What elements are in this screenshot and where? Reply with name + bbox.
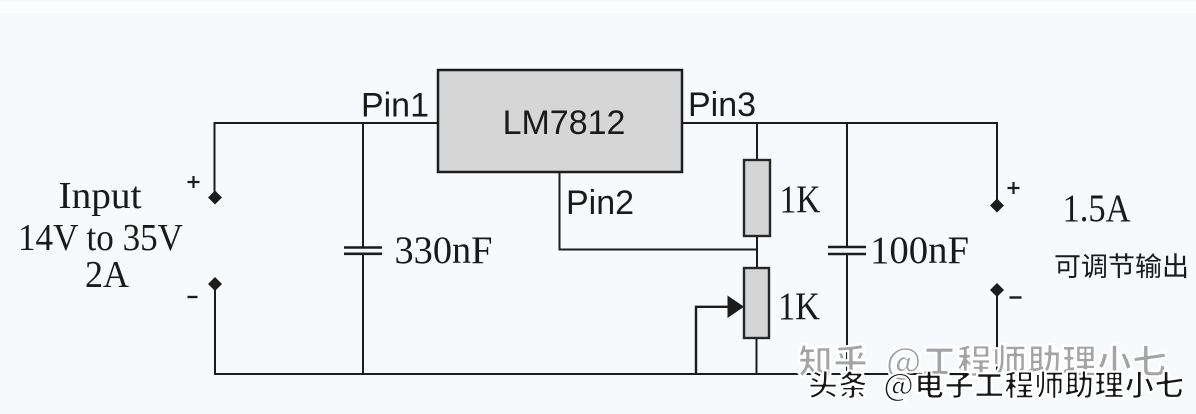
value label 100nF: [870, 229, 969, 272]
svg-text:Pin2: Pin2: [566, 184, 634, 222]
capacitor C2 100nF leads: [828, 123, 866, 374]
wire bottom rail: [215, 284, 997, 374]
output label adjustable output (CJK paths): [1056, 253, 1187, 278]
pin label Pin3: [688, 86, 756, 124]
pin label Pin1: [361, 87, 429, 125]
svg-text:100nF: 100nF: [870, 229, 969, 272]
svg-text:14V to 35V: 14V to 35V: [18, 217, 184, 259]
output label 1.5A: [1063, 187, 1131, 230]
output - sign: [1010, 296, 1022, 298]
node output - terminal dot: [990, 283, 1004, 297]
input label line1 Input: [59, 175, 142, 217]
output + sign: [1008, 182, 1020, 194]
input + sign: [188, 176, 200, 188]
IC U1 LM7812 voltage regulator body: [438, 70, 682, 172]
node input + terminal dot: [208, 191, 222, 205]
capacitor C1 330nF leads: [344, 123, 382, 374]
resistor R1 1K: [744, 123, 770, 268]
svg-text:1.5A: 1.5A: [1063, 187, 1131, 230]
watermark toutiao dark: [809, 370, 1184, 402]
input label line3 2A: [85, 254, 130, 296]
pin label Pin2: [566, 184, 634, 222]
svg-text:Pin1: Pin1: [361, 87, 429, 125]
wire top rail left (input+ to Pin1): [215, 123, 439, 197]
wire top rail right (Pin3 to output+): [682, 123, 997, 205]
value label 330nF: [395, 229, 493, 272]
potentiometer R2 1K body: [744, 268, 769, 374]
input label line2 14V to 35V: [18, 217, 184, 259]
svg-text:1K: 1K: [780, 178, 821, 221]
wire Pin2 to resistor junction: [560, 172, 758, 250]
node input - terminal dot: [208, 277, 222, 291]
node output + terminal dot: [990, 199, 1004, 213]
svg-text:Input: Input: [59, 175, 142, 217]
svg-text:2A: 2A: [85, 254, 130, 296]
svg-text:330nF: 330nF: [395, 229, 493, 272]
value label 1K (R2): [778, 285, 820, 328]
value label 1K (R1): [780, 178, 821, 221]
svg-text:Pin3: Pin3: [688, 86, 756, 124]
watermark zhihu gray: [798, 344, 1166, 381]
U1 value label LM7812: [503, 104, 626, 142]
potentiometer wiper arrow: [696, 296, 744, 375]
input - sign: [188, 296, 198, 298]
svg-text:1K: 1K: [778, 285, 820, 328]
svg-text:LM7812: LM7812: [503, 104, 626, 142]
